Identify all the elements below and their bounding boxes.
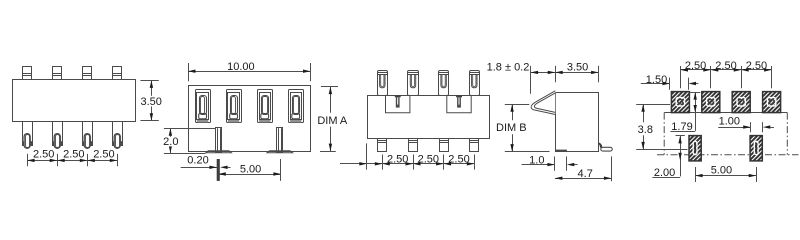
- view 5 dim 3.8 extension lines: [636, 104, 670, 106]
- view 5 dim 1.50 line: [641, 83, 670, 85]
- svg-text:1.8 ± 0.2: 1.8 ± 0.2: [487, 61, 530, 73]
- view 2 dim 2.0 line: [170, 128, 172, 153]
- svg-text:10.00: 10.00: [227, 61, 255, 73]
- view 4 dim 3.50 tick: [598, 66, 600, 82]
- view 5 top pad 4: [763, 92, 781, 113]
- view 3 recess window 1: [386, 95, 410, 113]
- view 5 dim 2.50 chain line: [681, 69, 772, 71]
- view 4 dim DIM B line: [512, 104, 514, 120]
- svg-text:0.20: 0.20: [187, 154, 208, 166]
- view 5 dim 5.00 ticks: [695, 167, 697, 182]
- svg-text:3.50: 3.50: [140, 96, 161, 108]
- svg-text:2.50: 2.50: [685, 60, 706, 72]
- view 4 bottom standoff: [555, 150, 567, 152]
- view 3 bottom pin 1: [378, 139, 387, 152]
- svg-text:5.00: 5.00: [240, 163, 261, 175]
- view 1 top pin 4: [113, 67, 122, 80]
- view 3 bottom pin 3: [440, 139, 449, 152]
- svg-text:3.8: 3.8: [638, 124, 653, 136]
- view 5 top pad 1 hole: [676, 98, 684, 106]
- view 4 dim 1.8 line: [531, 72, 556, 74]
- view 4 actuator loop: [531, 91, 555, 115]
- view 3 dim tick: [413, 155, 415, 170]
- view 2 dim 0.20 leader: [181, 167, 218, 169]
- svg-text:1.00: 1.00: [719, 115, 740, 127]
- view 1 bottom pin 3: [83, 122, 93, 146]
- view 5 dim 5.00 line: [695, 175, 756, 177]
- view 1 dim tick: [117, 154, 119, 166]
- view 3 dim leader line: [340, 163, 367, 165]
- view 3 dim tick: [443, 155, 445, 170]
- view 2 switch 1: [196, 90, 211, 123]
- view 5 dim 3.8 label: [637, 124, 654, 134]
- view 5 dim 1.79 label: [671, 122, 693, 131]
- view 4 gull-wing foot: [598, 143, 602, 148]
- view 1 dim tick: [27, 154, 29, 166]
- view 5 bottom pad 1 slot: [693, 141, 697, 154]
- view 5 dim 1.79 line: [695, 92, 697, 131]
- view 3 actuator 3: [439, 71, 449, 96]
- view 5 dim tick: [680, 66, 682, 88]
- svg-text:5.00: 5.00: [711, 164, 732, 176]
- view 3 body outline: [368, 96, 490, 139]
- view 1 dim 3.50 label: [140, 96, 164, 107]
- view 1 dim 2.50 chain line: [27, 160, 117, 162]
- view 3 actuator 4: [470, 71, 480, 96]
- view 3 dim tick: [474, 155, 476, 170]
- view 5 dim 1.00 line: [718, 127, 751, 129]
- view 1 dim tick: [87, 154, 89, 166]
- view 4 dim 4.7 line: [555, 178, 612, 180]
- view 5 dim tick: [741, 66, 743, 88]
- view 5 top pad 2: [702, 92, 720, 113]
- view 1 bottom pin 1: [23, 122, 33, 146]
- view 5 bottom pad 1: [689, 136, 701, 161]
- view 2 dim 5.00 line: [218, 174, 281, 176]
- view 4 dim 1.8 ticks: [530, 66, 532, 94]
- svg-text:2.50: 2.50: [746, 60, 767, 72]
- view 5 dim 2.00 line: [680, 136, 682, 177]
- view 3 bottom pin 4: [470, 139, 479, 152]
- view 2 dim 5.00 tick: [280, 159, 282, 181]
- view 4 side-view body outline: [556, 93, 599, 152]
- view 3 actuator 1: [378, 71, 388, 96]
- view 5 top pad 3 hole: [737, 98, 745, 106]
- view 2 switch 2: [227, 90, 242, 123]
- view 5 dim tick: [710, 66, 712, 88]
- view 3 actuator 2: [408, 71, 419, 96]
- view 5 body outline centerline: [664, 112, 787, 114]
- svg-text:2.50: 2.50: [33, 149, 54, 161]
- view 5 dim 2.00 top tick: [676, 135, 685, 137]
- view 5 top pad 4 hole: [767, 98, 775, 106]
- view 2 front-view body outline: [189, 86, 311, 152]
- view 5 bottom pad 2: [750, 136, 762, 161]
- view 1 dim 3.50 line: [151, 80, 153, 120]
- svg-text:4.7: 4.7: [578, 168, 593, 180]
- view 1 top pin 3: [83, 67, 92, 80]
- view 2 switch 4: [289, 90, 304, 123]
- view 3 dim 2.50 chain line: [367, 163, 475, 165]
- view 2 dim 2.0 extension lines: [164, 128, 216, 130]
- svg-text:2.50: 2.50: [715, 60, 736, 72]
- view 3 recess pin 1: [395, 95, 401, 97]
- view 4 dim 3.50 line: [555, 72, 598, 74]
- svg-text:DIM A: DIM A: [317, 115, 348, 127]
- view 5 top pad 2 hole: [707, 98, 715, 106]
- view 2 dim DIM A extension lines: [321, 86, 338, 88]
- svg-text:2.50: 2.50: [93, 149, 114, 161]
- view 5 bottom pad 2 slot: [754, 141, 758, 154]
- svg-text:2.0: 2.0: [163, 136, 178, 148]
- view 2 dim 2.0 label: [163, 137, 179, 147]
- view 2 center post 2: [267, 151, 293, 153]
- svg-text:DIM B: DIM B: [496, 122, 527, 134]
- view 5 top pad 1: [671, 92, 689, 113]
- view 4 dim DIM B extension lines: [505, 104, 530, 106]
- view 4 dim 1.0 line: [522, 164, 555, 166]
- view 5 dim 1.79 top tick: [690, 92, 700, 94]
- view 4 dim 4.7 tick: [611, 156, 613, 181]
- view 3 bottom pin 2: [409, 139, 418, 152]
- view 1 dim 3.50 extension lines: [140, 80, 158, 82]
- view 3 dim edge tick: [366, 143, 368, 169]
- svg-text:2.50: 2.50: [63, 149, 84, 161]
- view 5 dim tick: [771, 66, 773, 88]
- view 3 dim tick: [382, 155, 384, 170]
- view 1 top-view body outline: [13, 80, 136, 122]
- view 2 dim DIM A line: [330, 87, 332, 113]
- view 5 dim 1.79 underline: [670, 131, 695, 133]
- view 5 top pad 3: [732, 92, 750, 113]
- view 5 dim 2.00 underline: [652, 177, 680, 179]
- svg-text:3.50: 3.50: [567, 61, 588, 73]
- view 3 recess pin 2: [456, 95, 462, 97]
- view 2 dim 10.00 ticks: [188, 63, 190, 81]
- view 1 top pin 1: [23, 67, 32, 80]
- view 1 top pin 2: [53, 67, 62, 80]
- svg-text:2.50: 2.50: [387, 154, 408, 166]
- view 1 bottom pin 2: [53, 122, 63, 146]
- svg-text:2.50: 2.50: [418, 154, 439, 166]
- view 3 recess window 2: [447, 95, 471, 113]
- svg-text:2.50: 2.50: [448, 154, 469, 166]
- view 2 switch 3: [258, 90, 273, 123]
- view 2 center post 1: [206, 151, 232, 153]
- view 1 dim tick: [57, 154, 59, 166]
- view 2 dim 10.00 line: [188, 71, 311, 73]
- view 1 bottom pin 4: [113, 122, 123, 146]
- view 5 dim 3.8 line: [643, 104, 645, 122]
